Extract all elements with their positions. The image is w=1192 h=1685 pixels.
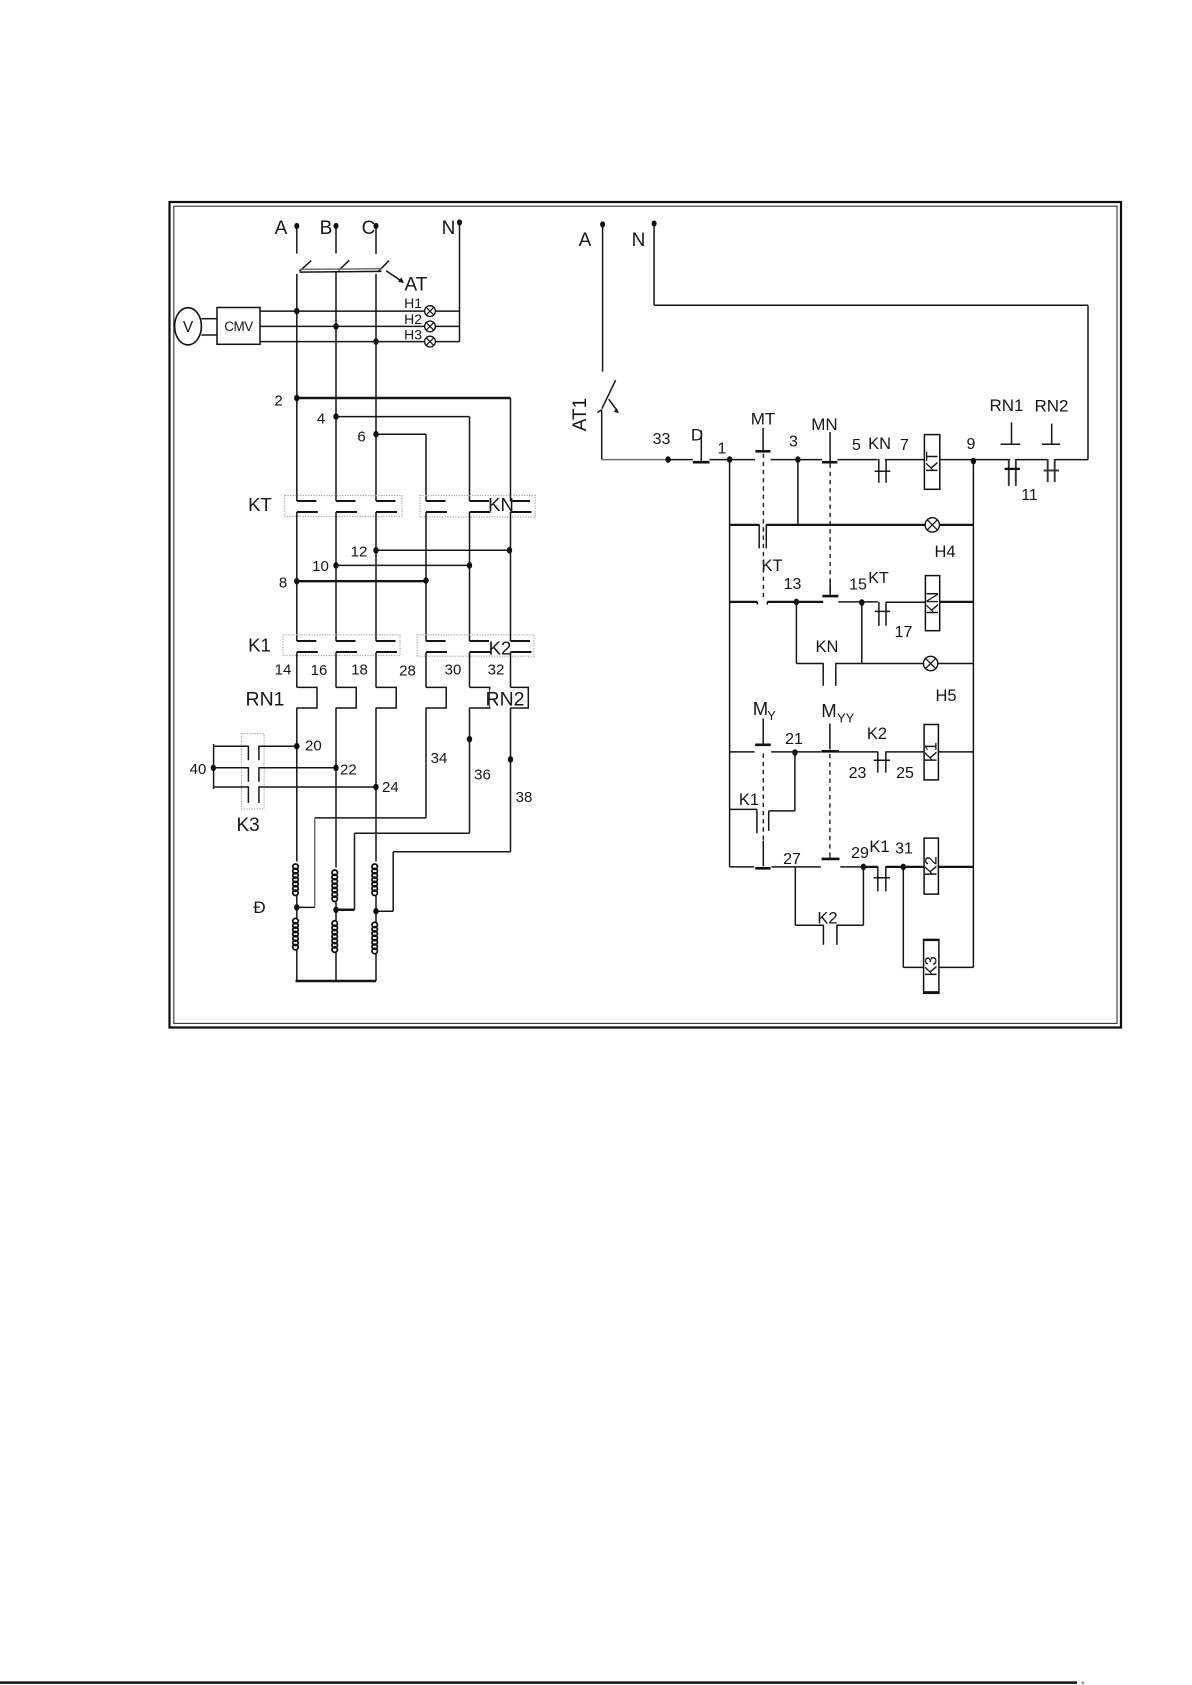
svg-text:22: 22 <box>340 762 357 779</box>
svg-text:K3: K3 <box>237 815 260 836</box>
svg-text:3: 3 <box>789 434 798 451</box>
svg-text:18: 18 <box>351 662 368 679</box>
svg-text:K1: K1 <box>739 791 759 809</box>
svg-text:RN2: RN2 <box>485 689 524 711</box>
svg-text:K1: K1 <box>869 838 889 856</box>
svg-text:32: 32 <box>488 662 505 679</box>
svg-text:A: A <box>275 218 288 239</box>
svg-text:6: 6 <box>357 429 365 446</box>
svg-text:MN: MN <box>811 415 837 434</box>
svg-text:KN: KN <box>488 494 514 515</box>
svg-text:KN: KN <box>924 592 942 615</box>
svg-text:K2: K2 <box>817 910 837 928</box>
svg-text:AT1: AT1 <box>570 398 591 431</box>
svg-text:AT: AT <box>405 275 428 296</box>
svg-text:25: 25 <box>896 765 914 782</box>
svg-text:N: N <box>632 230 646 251</box>
svg-text:10: 10 <box>312 558 329 575</box>
svg-text:H1: H1 <box>404 295 422 311</box>
svg-text:27: 27 <box>783 851 801 868</box>
svg-text:H4: H4 <box>934 543 955 561</box>
svg-text:K1: K1 <box>248 635 271 656</box>
svg-text:H2: H2 <box>404 311 422 327</box>
svg-text:38: 38 <box>516 789 533 806</box>
svg-text:17: 17 <box>895 624 913 641</box>
svg-text:33: 33 <box>653 431 671 448</box>
svg-text:1: 1 <box>718 441 727 458</box>
svg-text:31: 31 <box>895 841 913 858</box>
svg-text:28: 28 <box>399 663 416 680</box>
svg-text:K1: K1 <box>923 742 941 762</box>
svg-text:KT: KT <box>761 557 782 575</box>
svg-text:A: A <box>579 230 592 251</box>
svg-text:5: 5 <box>852 437 861 454</box>
svg-text:23: 23 <box>849 765 867 782</box>
svg-text:29: 29 <box>851 845 869 862</box>
svg-text:21: 21 <box>785 731 803 748</box>
svg-text:40: 40 <box>190 761 207 778</box>
svg-text:B: B <box>320 218 333 239</box>
svg-text:24: 24 <box>382 779 399 796</box>
svg-text:KN: KN <box>816 638 839 656</box>
svg-text:16: 16 <box>311 662 328 679</box>
svg-text:14: 14 <box>275 662 292 679</box>
svg-text:4: 4 <box>317 411 325 428</box>
svg-text:9: 9 <box>967 436 976 453</box>
svg-text:KT: KT <box>924 451 942 472</box>
svg-text:20: 20 <box>305 738 322 755</box>
svg-text:K2: K2 <box>867 725 887 743</box>
svg-text:KT: KT <box>248 494 272 515</box>
svg-text:8: 8 <box>279 575 287 592</box>
svg-text:H3: H3 <box>404 327 422 343</box>
svg-text:H5: H5 <box>935 687 956 705</box>
svg-text:34: 34 <box>431 750 448 767</box>
svg-text:MT: MT <box>751 410 776 429</box>
svg-text:KT: KT <box>868 570 889 587</box>
svg-text:36: 36 <box>474 767 491 784</box>
svg-text:RN1: RN1 <box>989 396 1023 415</box>
svg-text:KN: KN <box>868 435 891 453</box>
svg-text:RN2: RN2 <box>1034 397 1068 416</box>
svg-text:Y: Y <box>767 708 776 723</box>
svg-text:K2: K2 <box>489 638 512 659</box>
svg-text:N: N <box>442 218 456 239</box>
svg-text:Đ: Đ <box>253 898 265 917</box>
svg-text:V: V <box>183 319 194 336</box>
svg-text:30: 30 <box>445 662 462 679</box>
svg-text:K3: K3 <box>923 956 941 976</box>
svg-text:YY: YY <box>837 711 855 726</box>
svg-text:12: 12 <box>351 544 368 561</box>
svg-text:D: D <box>691 426 703 445</box>
svg-text:15: 15 <box>849 577 867 594</box>
svg-text:2: 2 <box>274 393 282 410</box>
svg-text:M: M <box>821 700 836 721</box>
svg-text:C: C <box>362 218 376 239</box>
svg-text:11: 11 <box>1021 487 1038 504</box>
svg-text:K2: K2 <box>923 856 941 876</box>
svg-text:7: 7 <box>900 437 909 454</box>
svg-text:M: M <box>753 698 768 719</box>
svg-text:RN1: RN1 <box>245 689 284 711</box>
svg-text:13: 13 <box>784 576 802 593</box>
svg-text:CMV: CMV <box>224 319 253 334</box>
